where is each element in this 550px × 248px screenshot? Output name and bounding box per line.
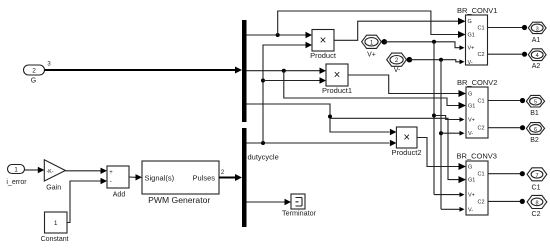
svg-text:C1: C1 [477,172,484,178]
svg-text:×: × [320,35,327,47]
wire to terminator [247,201,286,203]
junction dutycycle riser [261,141,265,145]
junction dot V- [407,57,413,63]
wire V- to BR1 [409,60,460,62]
svg-text:A2: A2 [532,63,541,70]
junction C branch [328,115,332,119]
terminator block [291,194,305,209]
svg-text:V+: V+ [468,46,475,52]
outport 6 (B2) hexagon [526,123,544,135]
wire BR3 C1 out [488,173,522,175]
wire dutycycle [247,142,390,144]
svg-text:Pulses: Pulses [192,174,215,183]
svg-text:V+: V+ [367,52,376,59]
svg-text:Product1: Product1 [322,86,352,95]
junction V+ to BR2 [432,114,436,118]
wire BR3 C2 out [488,200,522,202]
junction V- rail [439,58,443,62]
svg-text:C2: C2 [477,199,484,205]
wire A overpass to BR1 G1 [278,11,458,35]
svg-text:V-: V- [468,207,473,213]
svg-text:+: + [109,170,113,176]
wire product2 to BR3 G [417,138,459,167]
wire demux out C [247,104,390,132]
outport 5 (B1) hexagon [526,95,544,107]
wire i_error to gain [25,169,39,171]
wire demux out A [247,34,306,36]
wire BR2 C2 out [488,127,522,129]
svg-text:×: × [334,70,341,82]
svg-text:3: 3 [536,26,539,32]
sum block Add [107,166,129,188]
svg-text:5: 5 [534,100,537,106]
svg-text:Product: Product [310,51,337,60]
svg-text:Constant: Constant [41,236,69,243]
wire demux out B [247,70,320,72]
svg-text:B2: B2 [530,137,539,144]
inport 2 (G) [24,65,45,75]
inport 1 (i_error) [8,165,25,174]
constant block [45,212,68,233]
subsystem BR_CONV1 [466,15,488,65]
PWM Generator block [142,161,219,194]
svg-text:C1: C1 [477,99,484,105]
svg-text:Add: Add [113,191,126,198]
svg-text:G: G [31,78,36,85]
node arrow into demux [235,67,242,74]
svg-text:2: 2 [32,68,36,75]
subsystem BR_CONV2 [466,87,488,138]
wire V- rail [440,60,442,210]
svg-text:G: G [468,92,472,98]
wire add to pwm [129,176,136,178]
wire V+ to BR1 [384,42,460,48]
wire V- branch BR3 [441,208,460,210]
svg-text:×: × [403,132,410,144]
wire dutycycle riser [263,45,306,143]
wire BR1 C2 out [488,53,525,55]
outport 3 (A1) hexagon [528,22,546,33]
wire B underpass to BR2 G1 [284,71,459,106]
demux bar upper [242,20,247,122]
svg-text:i_error: i_error [6,179,27,186]
wire product to BR1 G [334,21,458,40]
svg-text:Terminator: Terminator [282,209,317,218]
svg-text:Gain: Gain [46,184,61,191]
wire BR2 C1 out [488,100,522,102]
junction dot V+ [382,39,388,45]
wire BR1 C1 out [488,27,525,29]
svg-text:G: G [468,165,472,171]
svg-text:1: 1 [14,167,18,174]
subsystem BR_CONV3 [466,161,488,215]
svg-text:V-: V- [468,131,473,137]
junction to product1 [261,79,265,83]
junction V+ rail [432,40,436,44]
svg-text:G1: G1 [468,178,475,184]
wire constant to add [67,181,101,223]
wire pwm to mux (bold) [219,177,236,179]
wire gain to add [65,170,100,172]
svg-text:4: 4 [536,53,539,59]
product block [312,30,334,52]
svg-text:Signal(s): Signal(s) [145,174,175,183]
svg-text:1: 1 [54,220,58,227]
outport 8 (C2) hexagon [527,195,547,208]
svg-text:V+: V+ [468,193,475,199]
svg-text:C2: C2 [477,52,484,58]
junction V- to BR2 [439,131,443,135]
wire V+ rail [433,42,435,195]
svg-text:8: 8 [535,200,538,206]
svg-text:7: 7 [535,173,538,179]
product2 block [396,127,417,148]
svg-text:BR_CONV1: BR_CONV1 [457,6,497,15]
svg-text:Product2: Product2 [391,148,421,157]
wire V+ branch BR3 [434,194,460,196]
port V- hexagon [387,53,407,66]
wire product1 to BR2 G [348,75,459,94]
wire V- branch BR2 [441,132,460,134]
svg-text:dutycycle: dutycycle [248,153,279,162]
svg-text:BR_CONV2: BR_CONV2 [457,78,497,87]
svg-text:-: - [110,179,112,185]
product1 block [326,64,348,86]
svg-text:G1: G1 [468,33,475,39]
svg-text:C1: C1 [532,185,541,192]
svg-text:C2: C2 [477,126,484,132]
svg-text:-K-: -K- [46,169,54,175]
junction B riser [282,69,286,73]
wire C long branch to BR3 G1 [330,118,459,179]
wire G bus [45,69,237,71]
svg-text:V-: V- [394,67,401,74]
port V+ hexagon [362,35,382,48]
svg-text:G1: G1 [468,104,475,110]
svg-text:G: G [468,19,472,25]
svg-text:A1: A1 [532,37,541,44]
gain G1 triangle [44,160,65,181]
svg-text:C1: C1 [477,26,484,32]
outport 4 (A2) hexagon [528,49,546,61]
svg-text:C2: C2 [532,211,541,218]
svg-text:PWM Generator: PWM Generator [148,195,210,205]
svg-text:B1: B1 [530,110,539,117]
wire riser to product1 lower input [263,80,320,82]
outport 7 (C1) hexagon [527,168,547,181]
wire V+ branch BR2 [434,116,460,120]
svg-text:BR_CONV3: BR_CONV3 [457,152,497,161]
svg-text:6: 6 [534,127,537,133]
svg-text:V+: V+ [468,118,475,124]
svg-text:V-: V- [468,60,473,66]
junction A riser [276,33,280,37]
demux bar lower [242,128,247,227]
